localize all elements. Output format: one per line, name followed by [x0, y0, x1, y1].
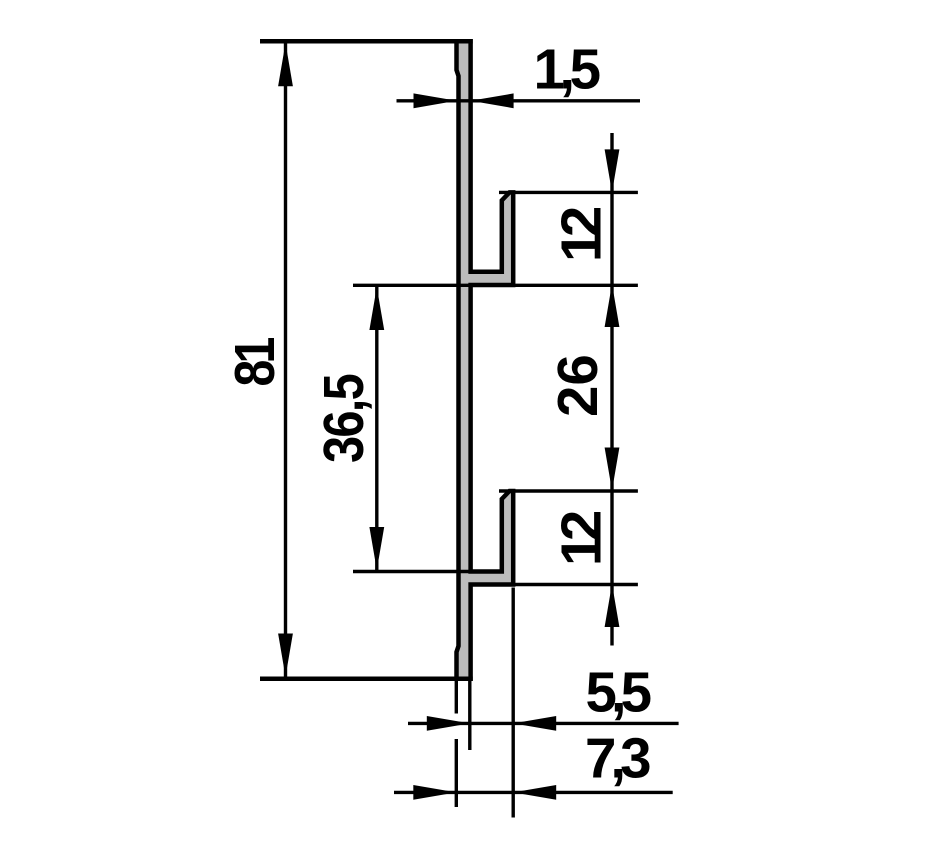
arrow 26 bottom (down): [605, 448, 620, 491]
dimension line 81: [284, 43, 287, 677]
arrow 1,5 right: [471, 93, 514, 108]
dimension line 36,5: [375, 287, 378, 570]
svg-text:1,5: 1,5: [534, 38, 600, 101]
arrow 81 top: [278, 43, 293, 86]
dimension line 1,5: [397, 99, 641, 102]
profile body (extrusion cross-section): [457, 41, 514, 679]
extension line bottom (81 / profile bottom face): [260, 676, 473, 681]
extension line below wall left face (7,3) upper segment: [455, 681, 458, 714]
svg-text:36,5: 36,5: [312, 375, 375, 463]
extension line top (81 / profile top face): [260, 39, 473, 44]
arrow 26 top (up): [605, 284, 620, 327]
dimension line right (12/26/12): [610, 133, 613, 646]
extension line below wall left face (7,3) lower segment: [455, 739, 458, 807]
arrow 5,5 right: [513, 716, 556, 731]
extension line hook2 top (26 / 12): [499, 489, 638, 492]
arrow 1,5 left: [414, 93, 457, 108]
svg-text:81: 81: [223, 338, 286, 387]
extension line hook1 top (12): [499, 191, 638, 194]
svg-text:12: 12: [550, 511, 613, 566]
extension line mid (36,5 top / hook1 bottom face): [353, 284, 638, 287]
svg-text:5,5: 5,5: [586, 661, 651, 724]
svg-text:7,3: 7,3: [585, 727, 650, 790]
extension line hook outer face (5,5 / 7,3): [512, 588, 515, 818]
arrow 36,5 bottom: [369, 527, 384, 570]
arrow 7,3 left: [413, 785, 456, 800]
arrow 81 bottom: [278, 634, 293, 677]
arrow 12 top (down): [605, 149, 620, 192]
arrow 36,5 top: [369, 287, 384, 330]
svg-text:26: 26: [546, 354, 609, 417]
arrow 5,5 left: [427, 716, 470, 731]
arrow 7,3 right: [513, 785, 556, 800]
extension line (36,5 bottom / hook2 inner bottom): [353, 570, 503, 573]
extension line hook2 bottom (12): [470, 583, 638, 586]
extension line below wall right face (5,5): [468, 681, 471, 750]
dimension line 5,5: [408, 722, 679, 725]
arrow 12 bottom (up): [605, 584, 620, 627]
dimension line 7,3: [394, 791, 673, 794]
svg-text:12: 12: [550, 207, 613, 262]
